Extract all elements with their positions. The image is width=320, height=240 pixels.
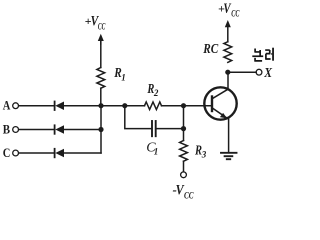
diode D3 (55, 149, 64, 158)
node at A line (98, 103, 103, 108)
label 논리 (drawn strokes) (252, 48, 273, 61)
wire right node to transistor base (184, 105, 212, 107)
+Vcc arrow (left) (98, 34, 104, 44)
svg-text:C: C (3, 145, 11, 160)
wire A to diode D1 (19, 105, 54, 107)
input terminal A (3, 97, 19, 112)
svg-text:1: 1 (154, 147, 159, 157)
output terminal X (256, 65, 273, 80)
+Vcc supply (right) (218, 1, 240, 27)
+Vcc supply (left) (85, 14, 106, 32)
svg-text:CC: CC (184, 191, 194, 201)
resistor R3 (180, 141, 207, 162)
svg-text:A: A (3, 97, 11, 112)
resistor R1 (97, 66, 126, 88)
diode D1 (55, 102, 64, 111)
svg-text:2: 2 (153, 88, 159, 98)
capacitor C1 branch wire (right) (156, 128, 184, 130)
node R2 right (181, 103, 186, 108)
resistor R2 (145, 81, 162, 110)
collector node (225, 70, 230, 75)
wire R2 to right node (162, 105, 184, 107)
capacitor C1 (146, 121, 158, 157)
wire B to diode D2 (19, 129, 54, 131)
collector wire up to node (227, 72, 229, 89)
input terminal C (3, 145, 19, 160)
wire collector node to output X (230, 71, 256, 73)
capacitor C1 branch wire (left) (125, 106, 152, 129)
svg-text:CC: CC (231, 8, 240, 19)
bus wire (vertical, joins A B C) (100, 106, 102, 153)
svg-text:1: 1 (121, 73, 126, 83)
emitter wire down to ground (228, 119, 230, 153)
wire D1 to bus (64, 105, 101, 107)
wire node to R2 (101, 105, 145, 107)
wire from +Vcc arrow to R1 (100, 41, 102, 68)
wire R3 to -Vcc terminal (183, 161, 185, 172)
vertical wire right node down to R3 (183, 106, 185, 141)
resistor RC (202, 41, 231, 62)
transistor Q1 (204, 87, 236, 119)
svg-text:B: B (3, 121, 11, 136)
input terminal B (3, 121, 19, 136)
wire R1 bottom to node (100, 88, 102, 106)
node C1/R3 junction (181, 126, 186, 131)
wire RC top to +Vcc arrow (227, 23, 229, 42)
-Vcc terminal (173, 172, 195, 201)
svg-text:3: 3 (201, 150, 207, 160)
svg-text:RC: RC (202, 41, 219, 56)
svg-text:CC: CC (98, 21, 106, 32)
svg-text:X: X (263, 65, 273, 80)
node at R2/C1 left branch (122, 103, 127, 108)
svg-text:V: V (223, 1, 231, 17)
wire C to diode D3 (19, 152, 54, 154)
wire D2 to bus (64, 129, 101, 131)
diode D2 (55, 125, 64, 134)
wire D3 to bus (64, 152, 101, 154)
node at B line (98, 127, 103, 132)
ground (221, 153, 237, 159)
